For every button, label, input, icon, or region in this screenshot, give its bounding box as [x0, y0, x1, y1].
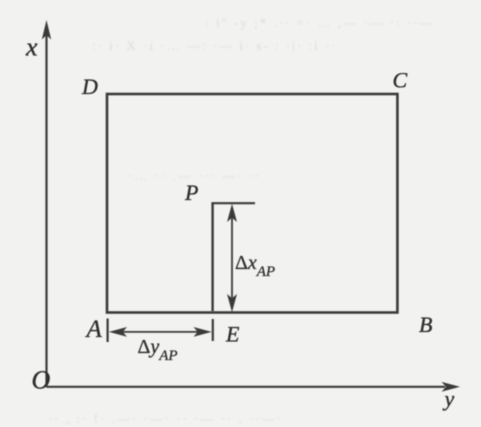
svg-text:y: y — [443, 386, 455, 411]
svg-text:E: E — [225, 322, 240, 347]
svg-text:P: P — [184, 180, 198, 205]
svg-text:B: B — [419, 312, 432, 337]
svg-text:C: C — [393, 68, 408, 93]
svg-text::· i· X ·i ·… —: ·— i· s- : ·|: :· i· X ·i ·… —: ·— i· s- : ·|· :i ·· — [92, 38, 338, 53]
svg-text:A: A — [85, 316, 103, 343]
svg-text:·· , :· !· .—· ·—· ·· ·— ·· .: ·· , :· !· .—· ·—· ·· ·— ·· . ··—· — [48, 411, 283, 426]
svg-text:O: O — [32, 366, 51, 395]
svg-text:D: D — [81, 74, 98, 99]
svg-text:: i" -y ;* .·· =· … ,— ·— ·: ·: : i" -y ;* .·· =· … ,— ·— ·: ··— — [205, 15, 435, 30]
svg-text:x: x — [25, 33, 38, 62]
